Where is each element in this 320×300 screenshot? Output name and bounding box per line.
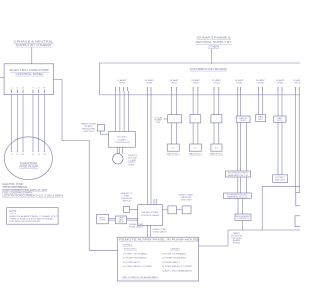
breaker MCB9: 16 AMP SP&amp;N xyxy=(293,79,303,91)
svg-text:WATER No.1: WATER No.1 xyxy=(167,153,181,156)
tank room unit box 2 xyxy=(295,216,302,227)
svg-text:NOTE: NOTE xyxy=(9,210,16,213)
svg-text:SIGNAL: SIGNAL xyxy=(233,242,240,245)
diesel start pressure switch 2 xyxy=(182,206,191,214)
svg-text:CONTROL PANEL: CONTROL PANEL xyxy=(16,72,45,76)
svg-text:L1: L1 xyxy=(11,88,13,90)
svg-text:OTHERS: OTHERS xyxy=(208,45,219,49)
svg-text:L2: L2 xyxy=(16,88,18,90)
battery charger box xyxy=(97,214,109,224)
motor terminal dots and labels xyxy=(10,151,45,156)
charger fail relay box xyxy=(115,216,126,224)
svg-text:U1: U1 xyxy=(10,154,12,156)
svg-text:SIGNAL CABLES: SIGNAL CABLES xyxy=(129,225,144,228)
breaker MCB6: 16 AMP TP&amp;N xyxy=(235,79,245,91)
diesel signal list xyxy=(162,252,193,272)
svg-text:4) PUMP FAILED TO START: 4) PUMP FAILED TO START xyxy=(162,265,193,268)
svg-text:UNIT: UNIT xyxy=(240,120,246,122)
electric fire pump motor (circle) xyxy=(4,137,52,180)
svg-text:FUSED: FUSED xyxy=(128,165,135,167)
svg-text:UNIT: UNIT xyxy=(258,119,263,121)
wires: starter No.2 to pump No.2 xyxy=(193,123,198,144)
svg-text:SWITCH: SWITCH xyxy=(123,200,132,202)
svg-text:SUPPLY BY OTHERS: SUPPLY BY OTHERS xyxy=(16,43,52,47)
electric fire pump control panel xyxy=(4,64,53,95)
wire: PS2 to diesel panel xyxy=(130,208,138,210)
wires: MCB9 to tank room units (2 conductors) xyxy=(295,91,299,193)
svg-text:ELECTRIC: ELECTRIC xyxy=(124,248,138,250)
breaker MCB4: 32 AMP TP&amp;N xyxy=(191,79,201,91)
extract fan isolator box xyxy=(274,116,286,122)
net label: 3 PHASE & NEUTRAL SUPPLY BY OTHERS xyxy=(14,40,55,47)
svg-text:U2: U2 xyxy=(32,154,34,156)
svg-text:FLOWSWITCH: FLOWSWITCH xyxy=(237,218,250,220)
breaker MCB7: 16 AMP SP&amp;N xyxy=(256,79,266,91)
svg-text:TP&N: TP&N xyxy=(171,82,178,84)
svg-text:W2: W2 xyxy=(43,154,46,156)
wires: charger relay to diesel panel (2 conductors) xyxy=(127,218,138,220)
svg-text:SP&N: SP&N xyxy=(277,82,284,84)
wire: diesel panel to start pressure switch 1 xyxy=(163,209,168,211)
wires: controller to jockey pump motor (3 conductors) xyxy=(117,147,122,154)
wires: MCB5 to starter No.3 xyxy=(214,91,219,115)
flowswitch group box 1 xyxy=(225,171,250,177)
svg-text:V1: V1 xyxy=(16,154,18,156)
svg-text:P.U.: P.U. xyxy=(172,148,176,150)
pressure switch PS1 (jockey start) xyxy=(97,124,104,131)
starter/isolator box No.2 xyxy=(190,115,201,123)
svg-text:DIESEL: DIESEL xyxy=(171,248,182,250)
starter/isolator box No.1 xyxy=(168,115,182,123)
tank room unit box 1 xyxy=(296,193,302,206)
breaker MCB5: 32 AMP TP&amp;N xyxy=(212,79,222,91)
jockey pump motor M1 (circle) xyxy=(113,154,123,164)
label: DIESEL PUMP SIGNAL CABLES (right) xyxy=(153,229,168,233)
svg-text:FIRE PUMP: FIRE PUMP xyxy=(19,165,38,169)
svg-text:P.U.: P.U. xyxy=(215,148,219,150)
wire: 63A supply to distribution board xyxy=(210,49,212,64)
label: DIESEL START PRESSURE SWITCHES xyxy=(179,194,195,202)
wires: interface to flowswitch group 1 (3 conductors) xyxy=(238,123,247,172)
electric signal list xyxy=(123,252,154,268)
wire: PS1 to jockey controller xyxy=(101,131,109,135)
label: jockey pump supply rating xyxy=(128,155,138,167)
wires: isolator to extract fan (2 conductors) xyxy=(278,122,282,175)
svg-text:ELECTRIC: ELECTRIC xyxy=(20,161,37,165)
extract fan unit box xyxy=(273,175,288,183)
label: ELECTRIC FIRE PUMP CONTROL PANEL xyxy=(10,68,49,76)
svg-text:SIGNAL CABLES: SIGNAL CABLES xyxy=(153,230,168,233)
label: DIESEL PUMP CONTROL PANEL xyxy=(141,212,161,217)
wires: starter No.3 to pump No.3 xyxy=(214,123,219,144)
wires: MCB7 to spare interface (2 conductors) xyxy=(259,91,263,115)
fire easement flowswitch box xyxy=(235,214,251,221)
svg-text:3) PUMP FAULT: 3) PUMP FAULT xyxy=(162,261,181,264)
net label: 63 AMP 3 PHASE & NEUTRAL SUPPLY BY OTHERS xyxy=(196,36,232,49)
svg-text:NEUTRAL SUPPLY BY: NEUTRAL SUPPLY BY xyxy=(196,40,232,44)
wires: stubs into diesel panel top xyxy=(154,199,156,205)
svg-text:63 AMP 3 PHASE &: 63 AMP 3 PHASE & xyxy=(197,36,231,40)
svg-text:3) PUMP FAULT: 3) PUMP FAULT xyxy=(123,261,142,264)
label: LOCAL START pushbutton xyxy=(155,116,164,124)
svg-text:WATER No.3: WATER No.3 xyxy=(210,153,224,156)
svg-text:TOTAL DISCHARGE: TOTAL DISCHARGE xyxy=(2,186,28,189)
svg-text:ELECTRIC PUMP: ELECTRIC PUMP xyxy=(2,184,24,186)
wire: local start to starter No.1 xyxy=(164,118,168,120)
diesel pump control panel xyxy=(138,205,163,226)
svg-text:AND 1) TANK ROOM ALARM FAULT: AND 1) TANK ROOM ALARM FAULT xyxy=(123,276,160,279)
label: NOTE text xyxy=(9,210,58,223)
breaker MCB3: 32 AMP TP&amp;N xyxy=(169,79,179,91)
svg-text:4) PUMP FAILED TO START: 4) PUMP FAILED TO START xyxy=(123,265,154,268)
svg-text:W1: W1 xyxy=(22,154,25,156)
wire: stub exiting panel left edge xyxy=(0,77,4,79)
breaker MCB2: 32 AMP TP&amp;N xyxy=(145,79,155,91)
svg-text:V2: V2 xyxy=(38,154,40,156)
svg-text:TP&N: TP&N xyxy=(193,82,200,84)
svg-text:EASEMENT No.1-10: EASEMENT No.1-10 xyxy=(228,174,248,177)
svg-text:SIGNALS: SIGNALS xyxy=(123,243,134,246)
diesel start pressure switch 1 xyxy=(168,206,177,214)
svg-text:CONTROLLER: CONTROLLER xyxy=(115,142,131,144)
svg-text:1) PUMP ON DEMAND: 1) PUMP ON DEMAND xyxy=(123,252,148,255)
panel terminal labels L1 L2 L3 E N PE xyxy=(11,88,47,90)
svg-text:CHGR: CHGR xyxy=(100,220,107,222)
note box xyxy=(7,208,58,225)
starter/isolator box No.3 xyxy=(211,115,222,123)
wires: panel to electric fire pump motor (6 conductors) xyxy=(12,95,45,152)
svg-text:TP&N: TP&N xyxy=(146,82,153,84)
svg-text:DISTRIBUTION BOARD: DISTRIBUTION BOARD xyxy=(190,67,227,71)
svg-text:SWITCH: SWITCH xyxy=(84,131,95,133)
wire: panel signal cable to remote alarm panel xyxy=(54,80,118,251)
svg-text:5) AUTO (NOT AVAILABLE): 5) AUTO (NOT AVAILABLE) xyxy=(162,270,192,273)
wires: charger to charger relay (2 conductors) xyxy=(108,218,115,220)
svg-text:P.B.: P.B. xyxy=(156,122,162,124)
svg-text:FULL LOAD=46.6 AMPS: FULL LOAD=46.6 AMPS xyxy=(2,192,33,195)
wires: diesel panel signal cables to remote alarm panel xyxy=(147,225,150,237)
svg-text:SP&N: SP&N xyxy=(119,82,126,84)
svg-text:LOCK ROTOR CURRENT=127.2-260.2: LOCK ROTOR CURRENT=127.2-260.2 AMPS xyxy=(2,194,64,197)
wires: flowswitch group 1 to group 2 (3 conductors) xyxy=(238,177,247,193)
wires: MCB1 to jockey pump controller (4 conductors) xyxy=(116,91,129,132)
spare interface box xyxy=(256,115,266,122)
label: tanks room high/low level alarm signal xyxy=(231,232,243,245)
wires: MCB3 to starter No.1 xyxy=(172,91,177,115)
svg-text:SP&N: SP&N xyxy=(258,82,265,84)
wire: switch 1 to switch 2 xyxy=(177,209,183,211)
svg-text:TP&N: TP&N xyxy=(213,82,220,84)
wire: fire easement flowswitch to alarm loop xyxy=(241,221,243,231)
svg-text:DIESEL PUMP: DIESEL PUMP xyxy=(142,212,160,214)
label: JOCKEY PUMP CONTROLLER xyxy=(115,137,131,144)
svg-text:2) PUMP RUNNING: 2) PUMP RUNNING xyxy=(162,258,187,260)
wires: MCB2 to diesel pump control panel (2 conductors) xyxy=(147,91,151,205)
svg-text:PUMP: PUMP xyxy=(118,139,127,141)
svg-text:SWITCHES: SWITCHES xyxy=(181,200,193,202)
panel output terminals (ticks) xyxy=(12,90,45,94)
svg-text:2) PUMP RUNNING: 2) PUMP RUNNING xyxy=(123,258,148,260)
remote alarm panel xyxy=(118,237,199,281)
wires: MCB8 to extract fan isolator (2 conductors) xyxy=(278,91,282,116)
wires: starter No.1 to pump No.1 xyxy=(172,123,177,144)
label: ELECTRIC FIRE PUMP xyxy=(19,161,38,169)
svg-text:WATER No.2: WATER No.2 xyxy=(189,153,203,156)
flowswitch interface box xyxy=(236,116,250,123)
jockey pump controller U1 xyxy=(109,132,136,148)
label: SEALED TO FIRE PRESSURE SWITCH xyxy=(121,192,134,202)
svg-text:CONTROL PANEL: CONTROL PANEL xyxy=(141,214,161,217)
svg-text:L3: L3 xyxy=(22,88,24,90)
wires: MCB6 to flowswitch interface (2 conductors) xyxy=(238,91,241,116)
svg-text:EASEMENT No.11-20: EASEMENT No.11-20 xyxy=(227,196,247,199)
svg-text:SP&N: SP&N xyxy=(294,82,300,84)
wires: flowswitch group 2 to fire easement flowswitch xyxy=(238,198,243,214)
svg-text:FAN UNIT: FAN UNIT xyxy=(275,179,285,182)
svg-text:ISOL: ISOL xyxy=(277,120,283,122)
svg-text:1) PUMP ON DEMAND: 1) PUMP ON DEMAND xyxy=(162,252,187,255)
label: HAND PUMP START PRESSURE SWITCH xyxy=(81,122,97,132)
svg-text:JOCKEY: JOCKEY xyxy=(117,137,128,139)
svg-text:FOR REMOTE MONITORING: FOR REMOTE MONITORING xyxy=(9,221,40,223)
pump unit box No.3 xyxy=(211,144,222,151)
text block: electric pump ratings xyxy=(2,184,64,197)
pump unit box No.2 xyxy=(189,144,201,151)
flowswitch group box 2 xyxy=(223,193,251,199)
wires: MCB4 to starter No.2 xyxy=(193,91,198,115)
svg-text:TP&N: TP&N xyxy=(236,82,243,84)
wire: incoming supply to electric fire pump control panel xyxy=(31,47,33,64)
label: DIESEL PUMP SIGNAL CABLES (left) xyxy=(129,224,144,228)
breaker MCB1: 6 AMP SP&amp;N xyxy=(116,79,128,91)
breaker MCB8: 16 AMP SP&amp;N xyxy=(276,79,286,91)
svg-text:PUMP CURRENT=130 AMPS AT 415V: PUMP CURRENT=130 AMPS AT 415V xyxy=(2,189,48,192)
svg-text:P.U.: P.U. xyxy=(194,148,198,150)
distribution board enclosure xyxy=(99,63,300,95)
pressure switch PS2 (diesel fire) xyxy=(124,206,130,212)
svg-text:REMOTE ALARM PANEL IN PUMP-HOU: REMOTE ALARM PANEL IN PUMP-HOUSE xyxy=(119,237,199,241)
pump unit box No.1 xyxy=(167,144,179,151)
wire: tank room alarm loop to remote alarm panel xyxy=(199,187,301,246)
